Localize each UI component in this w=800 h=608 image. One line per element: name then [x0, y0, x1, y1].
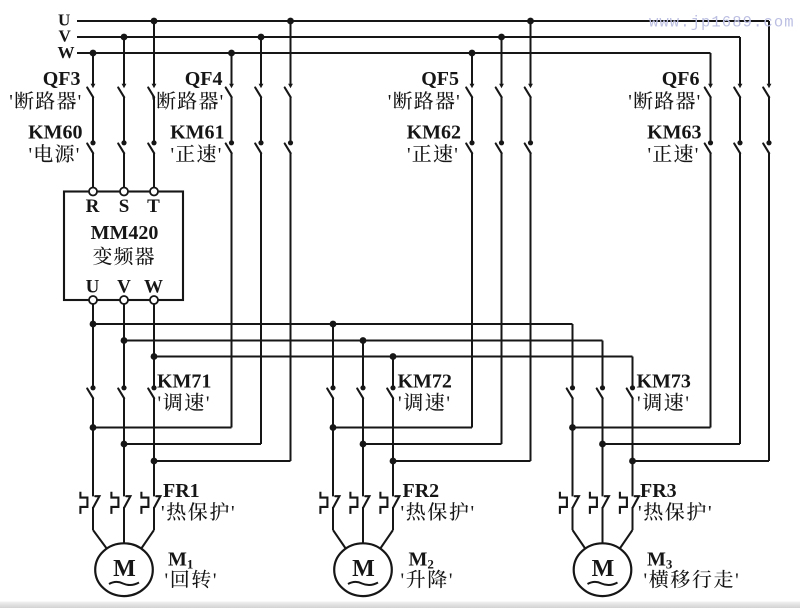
- breaker QF6 pole3: [763, 84, 771, 98]
- thermal relay FR2 pole1: [320, 492, 339, 514]
- wire motor 1 lead right: [141, 530, 154, 549]
- contactor KM63 pole2: [734, 140, 742, 153]
- svg-text:www.jp1689.com: www.jp1689.com: [649, 14, 795, 32]
- wire M1 phase1 to FR1: [92, 428, 94, 497]
- wire KM72 pole3 down: [392, 398, 394, 461]
- node bus1 tap KM71: [90, 321, 97, 328]
- wire KM63 pole3 down: [768, 153, 770, 461]
- node join M2 phase1: [330, 424, 337, 431]
- wire motor 2 lead right: [380, 530, 393, 549]
- svg-text:'断路器': '断路器': [628, 85, 701, 114]
- thermal relay FR3 pole1: [560, 492, 579, 514]
- svg-text:'正速': '正速': [170, 138, 222, 167]
- wire FR3 pole2 out: [602, 507, 604, 544]
- wire QF6 pole1 drop: [710, 53, 712, 84]
- wire QF3-KM60 pole1: [92, 97, 94, 140]
- wire QF6 pole2 drop: [739, 37, 741, 84]
- wire FR3 pole1 out: [572, 507, 574, 530]
- wire QF5 pole1 drop: [471, 53, 473, 84]
- svg-text:'横移行走': '横移行走': [644, 564, 741, 593]
- wire bus to KM73 pole2: [602, 341, 604, 386]
- motor M2 circle: [334, 543, 392, 596]
- contactor KM72 pole1: [327, 385, 335, 398]
- wire M1 phase2 to FR1: [123, 444, 125, 496]
- wire QF6-KM63 pole1: [710, 97, 712, 140]
- wire FR2 pole2 out: [362, 507, 364, 544]
- contactor KM72 pole2: [357, 385, 365, 398]
- wire KM61 pole2 down: [260, 153, 262, 444]
- contactor KM60 pole1: [87, 140, 95, 153]
- svg-text:U: U: [86, 277, 100, 298]
- wire M3 phase2 to FR3: [602, 444, 604, 496]
- breaker QF5 pole3: [525, 84, 533, 98]
- svg-text:'调速': '调速': [398, 387, 452, 416]
- contactor KM60 pole3: [148, 140, 156, 153]
- wire inverter out 2: [123, 304, 125, 386]
- breaker QF4 pole1: [226, 84, 234, 98]
- node tap QF4 pole2: [258, 34, 265, 41]
- wire QF6-KM63 pole3: [768, 97, 770, 140]
- wire QF4-KM61 pole1: [231, 97, 233, 140]
- wire QF5 pole3 drop: [530, 21, 532, 84]
- wire bus to KM72 pole3: [392, 357, 394, 386]
- svg-text:'断路器': '断路器': [151, 85, 224, 114]
- node bus3 tap KM71: [151, 353, 158, 360]
- wire KM60 pole3 to inverter: [153, 153, 155, 187]
- bus inverter phase 3: [154, 356, 633, 358]
- wire QF3-KM60 pole3: [153, 97, 155, 140]
- node bus1 tap KM72: [330, 321, 337, 328]
- wire QF3 pole2 drop: [123, 37, 125, 84]
- wire M1 phase3 to FR1: [153, 461, 155, 496]
- thermal relay FR2 pole2: [350, 492, 369, 514]
- svg-text:'回转': '回转': [165, 564, 219, 593]
- node join M1 phase3: [151, 458, 158, 465]
- wire KM71 pole3 down: [153, 398, 155, 461]
- wire FR1 pole3 out: [153, 507, 155, 530]
- inverter U1 MM420 box: [64, 192, 183, 301]
- motor M3 tilde: [588, 582, 618, 585]
- node join M1 phase1: [90, 424, 97, 431]
- wire KM60 pole2 to inverter: [123, 153, 125, 187]
- thermal relay FR3 pole3: [620, 492, 639, 514]
- wire M3 phase3 to FR3: [632, 461, 634, 496]
- wire KM73 pole1 down: [572, 398, 574, 427]
- contactor KM72 pole3: [387, 385, 395, 398]
- wire QF3-KM60 pole2: [123, 97, 125, 140]
- motor M3 circle: [574, 543, 632, 596]
- wire QF3 pole3 drop: [153, 21, 155, 84]
- wire motor 1 lead left: [93, 530, 107, 549]
- wire FR1 pole1 out: [92, 507, 94, 530]
- wire KM62 pole2 down: [501, 153, 503, 444]
- svg-text:'断路器': '断路器': [388, 85, 461, 114]
- contactor KM71 pole1: [87, 385, 95, 398]
- node tap QF4 pole3: [287, 18, 294, 25]
- breaker QF5 pole2: [496, 84, 504, 98]
- svg-text:R: R: [86, 196, 100, 217]
- wire KM71 pole1 down: [92, 398, 94, 427]
- svg-text:V: V: [117, 277, 131, 298]
- wire join M1 phase3: [154, 460, 291, 462]
- wire QF5-KM62 pole2: [501, 97, 503, 140]
- wire FR2 pole1 out: [332, 507, 334, 530]
- contactor KM71 pole2: [118, 385, 126, 398]
- node join M1 phase2: [121, 441, 128, 448]
- node bus3 tap KM72: [390, 353, 397, 360]
- wire QF6-KM63 pole2: [739, 97, 741, 140]
- wire motor 3 lead right: [620, 530, 633, 549]
- breaker QF3 pole3: [148, 84, 156, 98]
- node tap QF3 pole2: [121, 34, 128, 41]
- node join M2 phase2: [360, 441, 367, 448]
- wire FR2 pole3 out: [392, 507, 394, 530]
- thermal relay FR1 pole1: [80, 492, 99, 514]
- breaker QF6 pole2: [734, 84, 742, 98]
- wire FR1 pole2 out: [123, 507, 125, 544]
- node tap QF5 pole2: [498, 34, 505, 41]
- wire QF5-KM62 pole3: [530, 97, 532, 140]
- svg-text:变频器: 变频器: [93, 241, 156, 270]
- svg-text:T: T: [147, 196, 160, 217]
- wire KM62 pole3 down: [530, 153, 532, 461]
- terminal R: [89, 188, 97, 196]
- wire bus to KM73 pole3: [632, 357, 634, 386]
- node join M3 phase2: [599, 441, 606, 448]
- wire KM73 pole2 down: [602, 398, 604, 444]
- svg-text:'电源': '电源': [28, 138, 80, 167]
- bus inverter phase 2: [124, 340, 603, 342]
- wire M2 phase2 to FR2: [362, 444, 364, 496]
- contactor KM61 pole2: [255, 140, 263, 153]
- motor M1 circle: [95, 543, 153, 596]
- svg-text:'升降': '升降': [401, 564, 455, 593]
- wire M2 phase1 to FR2: [332, 428, 334, 497]
- wire QF4 pole3 drop: [290, 21, 292, 84]
- breaker QF3 pole2: [118, 84, 126, 98]
- wire KM71 pole2 down: [123, 398, 125, 444]
- wire QF5 pole2 drop: [501, 37, 503, 84]
- contactor KM73 pole3: [627, 385, 635, 398]
- wire QF4 pole1 drop: [231, 53, 233, 84]
- svg-text:'热保护': '热保护': [161, 496, 236, 525]
- svg-text:'正速': '正速': [407, 138, 459, 167]
- contactor KM61 pole1: [226, 140, 234, 153]
- motor M2 tilde: [348, 582, 378, 585]
- node join M3 phase3: [629, 458, 636, 465]
- node join M2 phase3: [390, 458, 397, 465]
- thermal relay FR1 pole2: [111, 492, 130, 514]
- svg-text:'热保护': '热保护': [638, 496, 713, 525]
- wire motor 3 lead left: [573, 530, 586, 549]
- wire KM72 pole2 down: [362, 398, 364, 444]
- terminal out V: [120, 296, 128, 304]
- wire bus to KM72 pole2: [362, 341, 364, 386]
- wire M2 phase3 to FR2: [392, 461, 394, 496]
- node tap QF5 pole1: [469, 50, 476, 57]
- contactor KM62 pole1: [466, 140, 474, 153]
- wire KM60 pole1 to inverter: [92, 153, 94, 187]
- thermal relay FR3 pole2: [590, 492, 609, 514]
- contactor KM62 pole2: [496, 140, 504, 153]
- svg-text:M: M: [592, 556, 615, 582]
- wire motor 2 lead left: [333, 530, 346, 549]
- node tap QF5 pole3: [527, 18, 534, 25]
- wire QF6 pole3 drop: [768, 21, 770, 84]
- wire join M2 phase1: [333, 427, 472, 429]
- wire KM73 pole3 down: [632, 398, 634, 461]
- breaker QF6 pole1: [705, 84, 713, 98]
- wire QF4 pole2 drop: [260, 37, 262, 84]
- svg-text:W: W: [144, 277, 163, 298]
- wire FR3 pole3 out: [632, 507, 634, 530]
- svg-text:'调速': '调速': [158, 387, 212, 416]
- node bus2 tap KM71: [121, 337, 128, 344]
- wire bus to KM73 pole1: [572, 324, 574, 386]
- svg-text:S: S: [119, 196, 130, 217]
- wire KM63 pole2 down: [739, 153, 741, 444]
- wire KM63 pole1 down: [710, 153, 712, 427]
- wire join M3 phase1: [573, 427, 711, 429]
- wire bus to KM72 pole1: [332, 324, 334, 386]
- wire KM61 pole3 down: [290, 153, 292, 461]
- thermal relay FR2 pole3: [380, 492, 399, 514]
- wire join M1 phase2: [124, 443, 261, 445]
- svg-text:M: M: [352, 556, 375, 582]
- wire inverter out 1: [92, 304, 94, 386]
- contactor KM60 pole2: [118, 140, 126, 153]
- wire join M2 phase3: [393, 460, 531, 462]
- wire join M1 phase1: [93, 427, 232, 429]
- contactor KM71 pole3: [148, 385, 156, 398]
- wire QF4-KM61 pole3: [290, 97, 292, 140]
- terminal S: [120, 188, 128, 196]
- thermal relay FR1 pole3: [141, 492, 160, 514]
- terminal out U: [89, 296, 97, 304]
- contactor KM62 pole3: [525, 140, 533, 153]
- motor M1 tilde: [109, 582, 139, 585]
- phase bus W: [77, 52, 711, 54]
- node tap QF3 pole3: [151, 18, 158, 25]
- wire join M2 phase2: [363, 443, 502, 445]
- bus inverter phase 1: [93, 323, 573, 325]
- contactor KM61 pole3: [285, 140, 293, 153]
- wire QF5-KM62 pole1: [471, 97, 473, 140]
- wire KM62 pole1 down: [471, 153, 473, 427]
- breaker QF5 pole1: [466, 84, 474, 98]
- wire join M3 phase3: [633, 460, 770, 462]
- wire join M3 phase2: [603, 443, 741, 445]
- svg-text:'热保护': '热保护': [401, 496, 476, 525]
- svg-text:W: W: [58, 43, 75, 62]
- wire KM72 pole1 down: [332, 398, 334, 427]
- bottom scan edge: [0, 602, 800, 608]
- svg-text:'正速': '正速': [647, 138, 699, 167]
- phase bus U: [77, 20, 769, 22]
- phase bus V: [77, 36, 740, 38]
- contactor KM63 pole3: [763, 140, 771, 153]
- node tap QF4 pole1: [228, 50, 235, 57]
- wire KM61 pole1 down: [231, 153, 233, 427]
- terminal out W: [150, 296, 158, 304]
- breaker QF4 pole3: [285, 84, 293, 98]
- breaker QF4 pole2: [255, 84, 263, 98]
- wire inverter out 3: [153, 304, 155, 386]
- svg-text:'断路器': '断路器': [9, 85, 82, 114]
- wire QF3 pole1 drop: [92, 53, 94, 84]
- breaker QF3 pole1: [87, 84, 95, 98]
- contactor KM73 pole2: [597, 385, 605, 398]
- wire M3 phase1 to FR3: [572, 428, 574, 497]
- node tap QF3 pole1: [90, 50, 97, 57]
- node bus2 tap KM72: [360, 337, 367, 344]
- contactor KM63 pole1: [705, 140, 713, 153]
- svg-text:M: M: [113, 556, 136, 582]
- node join M3 phase1: [569, 424, 576, 431]
- terminal T: [150, 188, 158, 196]
- wire QF4-KM61 pole2: [260, 97, 262, 140]
- contactor KM73 pole1: [567, 385, 575, 398]
- svg-text:'调速': '调速': [637, 387, 691, 416]
